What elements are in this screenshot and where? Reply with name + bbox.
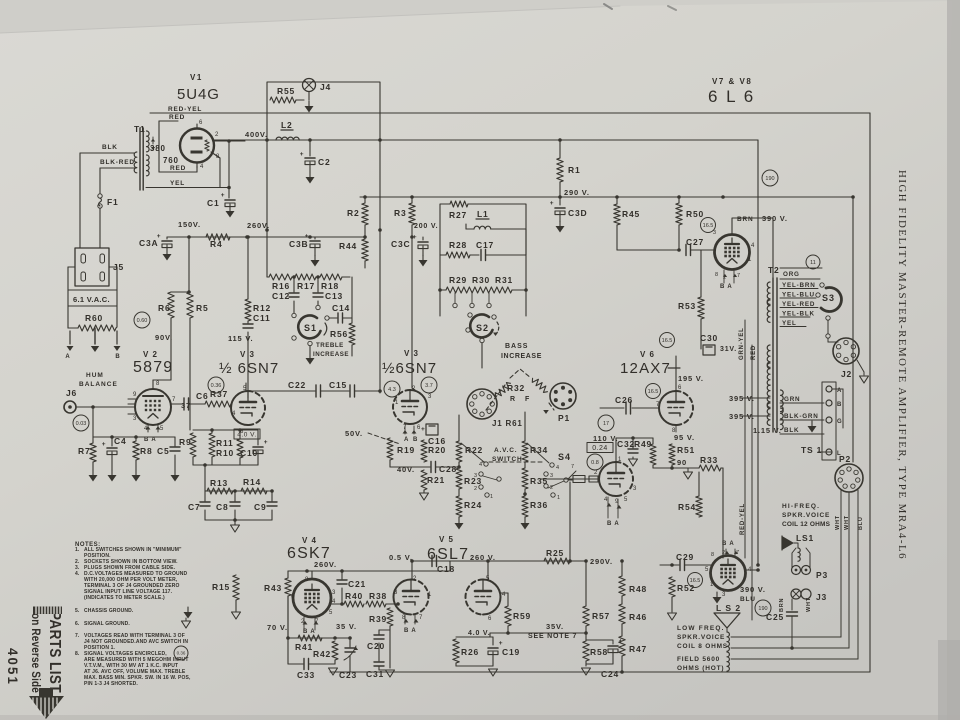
pin 8 — [211, 152, 220, 158]
svg-text:T2: T2 — [768, 265, 780, 275]
resistor R20 — [421, 440, 427, 462]
svg-text:3: 3 — [713, 230, 717, 236]
svg-text:5: 5 — [624, 497, 628, 503]
svg-text:YEL: YEL — [170, 180, 185, 187]
tap YEL-BLU — [780, 288, 818, 290]
svg-text:1: 1 — [428, 592, 432, 598]
terminal B — [116, 331, 118, 344]
resistors R16 R17 R18 treble network — [267, 276, 269, 278]
wires P2 down WHT WHT BLU — [840, 490, 842, 637]
svg-text:YEL-BLK: YEL-BLK — [782, 311, 815, 318]
svg-text:RED: RED — [751, 345, 757, 360]
svg-text:C5: C5 — [157, 446, 169, 456]
svg-text:+: + — [221, 192, 226, 199]
svg-text:0.5 V.: 0.5 V. — [389, 553, 413, 562]
svg-text:395 V.: 395 V. — [729, 412, 755, 421]
svg-text:+: + — [264, 439, 269, 446]
svg-text:BLK: BLK — [102, 144, 118, 151]
resistor R57 — [585, 561, 587, 606]
svg-text:BLK: BLK — [784, 427, 799, 434]
wire V5b plate to R59 — [500, 592, 508, 594]
wire V4 plate — [331, 597, 342, 599]
svg-text:B A: B A — [607, 521, 620, 527]
tap YEL — [780, 316, 810, 318]
capacitor C16 — [426, 424, 438, 435]
svg-text:R11: R11 — [216, 438, 234, 448]
svg-text:R38: R38 — [369, 591, 387, 601]
svg-text:B A: B A — [404, 628, 417, 634]
svg-text:2: 2 — [215, 132, 219, 138]
svg-text:OHMS (HOT): OHMS (HOT) — [677, 665, 724, 672]
svg-text:7: 7 — [656, 402, 660, 408]
svg-text:R58: R58 — [590, 647, 608, 657]
svg-text:R19: R19 — [397, 445, 415, 455]
svg-text:R26: R26 — [461, 647, 479, 657]
svg-text:11: 11 — [810, 260, 816, 266]
svg-text:5.: 5. — [75, 608, 80, 614]
svg-text:6: 6 — [488, 616, 492, 622]
svg-text:R47: R47 — [629, 644, 647, 654]
svg-text:260V.: 260V. — [247, 221, 270, 230]
svg-text:J6: J6 — [66, 388, 77, 398]
svg-text:B A: B A — [303, 629, 316, 635]
tap YEL-BRN — [780, 278, 820, 280]
svg-text:R12: R12 — [253, 303, 271, 313]
svg-text:V 6: V 6 — [640, 350, 655, 359]
svg-text:8.: 8. — [75, 651, 80, 657]
jack J3 — [791, 589, 801, 599]
svg-text:7.: 7. — [75, 633, 80, 639]
svg-text:BALANCE: BALANCE — [79, 381, 118, 388]
wire V7 plate up — [731, 225, 733, 234]
svg-text:HUM: HUM — [86, 372, 104, 379]
socket J1 R61 — [467, 389, 497, 419]
svg-text:R3: R3 — [394, 208, 406, 218]
svg-text:4051: 4051 — [5, 648, 20, 686]
svg-text:R15: R15 — [212, 582, 230, 592]
wire V6b plate — [615, 438, 617, 462]
svg-text:R25: R25 — [546, 548, 564, 558]
resistor R21 — [421, 470, 427, 490]
svg-text:4.3: 4.3 — [388, 387, 396, 393]
svg-text:C29: C29 — [676, 552, 694, 562]
svg-text:3: 3 — [550, 473, 554, 479]
resistor R50 — [678, 197, 680, 203]
wire bottom bus — [330, 671, 870, 673]
resistor R10 — [209, 433, 215, 457]
svg-text:R42: R42 — [313, 649, 331, 659]
wire plate row — [245, 391, 247, 393]
svg-text:1: 1 — [557, 495, 561, 501]
switch contacts above S2 — [454, 293, 456, 303]
svg-text:+: + — [300, 151, 305, 158]
svg-text:SEE NOTE 7: SEE NOTE 7 — [528, 633, 577, 640]
svg-text:R20: R20 — [428, 445, 446, 455]
svg-text:R49: R49 — [634, 439, 652, 449]
wire cathode net bottom — [193, 464, 258, 466]
svg-text:31V.: 31V. — [720, 346, 737, 353]
wire V4 pin6 — [288, 597, 293, 599]
svg-text:A: A — [65, 354, 70, 360]
LS2 voice coil — [726, 628, 728, 632]
svg-text:1.: 1. — [75, 547, 80, 553]
svg-text:0.03: 0.03 — [76, 421, 87, 427]
wire pot top to 290V — [519, 290, 521, 368]
transformer T2 core — [772, 278, 774, 432]
svg-text:3: 3 — [133, 416, 137, 422]
resistor R8 — [133, 441, 139, 460]
svg-text:YEL-RED: YEL-RED — [782, 301, 815, 308]
resistor R24 — [456, 496, 462, 517]
capacitor C25 — [791, 599, 793, 610]
svg-text:C6: C6 — [196, 391, 208, 401]
svg-text:16.5: 16.5 — [662, 338, 673, 344]
svg-text:WHT: WHT — [844, 515, 850, 530]
svg-text:7: 7 — [736, 550, 740, 556]
wire V4 cathode pins — [303, 617, 305, 630]
pentode V8 6L6 — [711, 556, 746, 591]
svg-text:C3B: C3B — [289, 239, 308, 249]
wire V7 grid vertical — [722, 197, 724, 237]
wire 290V bus — [360, 196, 853, 198]
svg-text:C33: C33 — [297, 670, 315, 680]
svg-text:1: 1 — [618, 457, 622, 463]
svg-text:HIGH FIDELITY MASTER-REMOTE AM: HIGH FIDELITY MASTER-REMOTE AMPLIFIER, T… — [896, 170, 908, 560]
svg-text:R45: R45 — [622, 209, 640, 219]
svg-text:R8: R8 — [140, 446, 152, 456]
ground V8 — [718, 591, 720, 594]
chassis ground example — [187, 607, 189, 612]
gang dashed line — [482, 461, 545, 463]
wire YEL — [146, 187, 229, 189]
svg-text:6 L 6: 6 L 6 — [708, 87, 755, 106]
svg-text:2: 2 — [722, 550, 726, 556]
pin 9 — [128, 398, 136, 400]
wire 90 node — [653, 467, 699, 469]
signal value 17 — [598, 415, 614, 431]
svg-text:S3: S3 — [822, 293, 835, 303]
svg-text:8: 8 — [305, 577, 309, 583]
svg-text:6: 6 — [678, 385, 682, 391]
resistor R19 — [389, 437, 391, 440]
svg-text:8: 8 — [156, 381, 160, 387]
svg-text:R48: R48 — [629, 584, 647, 594]
T2 primary winding — [767, 282, 770, 304]
svg-text:2: 2 — [412, 386, 416, 392]
wire V3b cathode pins — [403, 424, 405, 437]
svg-text:4: 4 — [200, 164, 204, 170]
svg-text:90V.: 90V. — [155, 333, 173, 342]
capacitor C26 — [600, 407, 624, 409]
svg-text:RED: RED — [170, 165, 186, 172]
resistor R52 — [671, 565, 673, 577]
capacitor C22 — [245, 390, 247, 391]
svg-text:40V.: 40V. — [397, 465, 415, 474]
svg-text:B A: B A — [144, 437, 157, 443]
svg-text:C13: C13 — [325, 291, 343, 301]
svg-text:5: 5 — [329, 610, 333, 616]
signal value 190 — [755, 600, 771, 616]
capacitor C23 variable — [349, 638, 351, 647]
svg-text:4: 4 — [751, 243, 755, 249]
svg-text:6SK7: 6SK7 — [287, 545, 331, 562]
svg-text:195 V.: 195 V. — [678, 374, 704, 383]
svg-text:3.7: 3.7 — [425, 383, 433, 389]
svg-text:SPKR.VOICE: SPKR.VOICE — [782, 512, 830, 519]
svg-text:R5: R5 — [196, 303, 208, 313]
svg-text:C20: C20 — [367, 641, 385, 651]
svg-text:R39: R39 — [369, 614, 387, 624]
svg-text:C32: C32 — [617, 439, 635, 449]
resistor R12 — [247, 237, 249, 299]
svg-text:A.V.C.: A.V.C. — [494, 447, 517, 454]
speaker LS1 horn — [782, 536, 794, 550]
pin 1 — [128, 403, 135, 405]
svg-text:C3C: C3C — [391, 239, 410, 249]
svg-text:RED: RED — [169, 114, 185, 121]
svg-text:C18: C18 — [437, 564, 455, 574]
resistor R59 — [505, 606, 511, 626]
svg-text:C22: C22 — [288, 380, 306, 390]
resistor R41 — [288, 637, 350, 639]
signal value 3.7 — [421, 377, 437, 393]
wire down to P2 — [852, 197, 854, 462]
svg-text:+: + — [305, 233, 310, 240]
pin 7 — [171, 403, 181, 405]
svg-text:R41: R41 — [295, 642, 313, 652]
svg-text:4.0 V.: 4.0 V. — [237, 431, 256, 438]
svg-text:4.0 V.: 4.0 V. — [468, 630, 490, 637]
svg-text:12AX7: 12AX7 — [620, 360, 671, 377]
svg-text:C28: C28 — [439, 464, 457, 474]
svg-text:R31: R31 — [495, 275, 513, 285]
wire V3a plate — [245, 383, 247, 391]
wire V8 plate — [745, 567, 758, 569]
svg-text:3: 3 — [394, 590, 398, 596]
svg-text:3: 3 — [474, 473, 478, 479]
wire 150V bus — [167, 236, 365, 238]
svg-text:on Reverse Side: on Reverse Side — [29, 613, 41, 693]
svg-text:7: 7 — [172, 397, 176, 403]
svg-text:BASS: BASS — [505, 343, 528, 350]
connector J5 — [75, 248, 109, 286]
wire V3a cathode — [239, 425, 241, 437]
resistor R53 — [700, 250, 702, 297]
resistor R7 — [90, 443, 96, 462]
switch S3 — [821, 287, 841, 311]
wire filter to S2 — [439, 255, 441, 316]
resistor R51 — [671, 432, 673, 443]
svg-text:R33: R33 — [700, 455, 718, 465]
svg-text:B: B — [115, 354, 120, 360]
svg-text:+: + — [421, 426, 426, 433]
svg-text:C12: C12 — [272, 291, 290, 301]
svg-text:COIL 8 OHMS: COIL 8 OHMS — [677, 643, 728, 650]
svg-text:0.36: 0.36 — [177, 651, 186, 656]
svg-text:YEL-BRN: YEL-BRN — [782, 282, 816, 289]
box R27 L1 filter — [440, 204, 450, 255]
signal ground example — [182, 621, 191, 628]
svg-text:+: + — [102, 441, 107, 448]
svg-text:R6: R6 — [158, 303, 170, 313]
svg-text:C19: C19 — [502, 647, 520, 657]
6.1 V.A.C. box — [68, 290, 117, 306]
svg-text:GRN: GRN — [784, 396, 800, 403]
resistor R34 — [524, 412, 526, 441]
svg-text:6: 6 — [199, 120, 203, 126]
T2 secondary winding — [781, 390, 784, 412]
ground R42 — [329, 668, 338, 675]
svg-text:R53: R53 — [678, 301, 696, 311]
parts list arrow — [29, 696, 64, 719]
wire TS1 stubs — [832, 388, 843, 390]
svg-text:TS 1: TS 1 — [801, 445, 822, 455]
signal value 0.60 — [134, 312, 150, 328]
svg-text:WHT: WHT — [835, 515, 841, 530]
triode V6a 12AX7 — [659, 391, 676, 425]
svg-text:GRN-YEL: GRN-YEL — [739, 327, 745, 360]
svg-text:0.60: 0.60 — [137, 318, 148, 324]
svg-text:LS1: LS1 — [796, 533, 814, 543]
ground filter — [234, 520, 236, 525]
svg-text:R52: R52 — [677, 583, 695, 593]
pilot lamp J4 — [303, 79, 316, 92]
svg-text:200 V.: 200 V. — [414, 223, 438, 230]
wire GRN-YEL vertical — [744, 320, 746, 558]
wire RED upper — [159, 120, 178, 122]
svg-text:YEL: YEL — [782, 320, 797, 327]
svg-text:395 V.: 395 V. — [729, 394, 755, 403]
svg-text:2: 2 — [413, 576, 417, 582]
signal value 11 — [806, 255, 820, 269]
svg-text:R7: R7 — [78, 446, 90, 456]
wire RED-YEL top bus — [150, 112, 870, 114]
wire V5a grid — [397, 601, 399, 604]
svg-text:1: 1 — [490, 494, 494, 500]
svg-text:C27: C27 — [686, 237, 704, 247]
svg-text:8: 8 — [711, 552, 715, 558]
capacitor C18 — [431, 556, 433, 567]
pin 3 — [128, 413, 137, 415]
svg-text:R1: R1 — [568, 165, 580, 175]
wire field coil to bus — [731, 665, 870, 667]
svg-text:4: 4 — [144, 426, 148, 432]
svg-text:ORG: ORG — [783, 271, 800, 278]
wire V4 screen bus 260V — [288, 570, 450, 572]
svg-text:SIGNAL GROUND.: SIGNAL GROUND. — [84, 621, 130, 627]
svg-text:35 V.: 35 V. — [336, 622, 357, 631]
svg-text:B: B — [413, 437, 418, 443]
capacitor C21 — [341, 571, 343, 579]
svg-text:C26: C26 — [615, 395, 633, 405]
wire to V3b grid — [372, 390, 380, 392]
svg-text:6.: 6. — [75, 621, 80, 627]
signal value 4.3 — [384, 381, 400, 397]
svg-text:WHT: WHT — [806, 597, 812, 612]
svg-text:0.24: 0.24 — [592, 445, 608, 452]
resistor R2 — [364, 197, 366, 203]
svg-text:S1: S1 — [304, 323, 317, 333]
svg-text:C1: C1 — [207, 198, 219, 208]
ground under S1 — [309, 346, 311, 358]
svg-text:RED-YEL: RED-YEL — [168, 106, 202, 113]
svg-text:+: + — [550, 200, 555, 207]
svg-text:PARTS LIST: PARTS LIST — [46, 611, 63, 693]
triode V5b 6SL7 — [483, 580, 501, 615]
svg-text:390 V.: 390 V. — [740, 585, 766, 594]
svg-text:6SL7: 6SL7 — [427, 546, 469, 563]
svg-text:J2: J2 — [841, 369, 852, 379]
T2 secondary taps — [780, 402, 824, 404]
svg-text:R54: R54 — [678, 502, 696, 512]
svg-text:V 2: V 2 — [143, 350, 158, 359]
svg-text:5U4G: 5U4G — [177, 86, 220, 103]
svg-text:5879: 5879 — [133, 359, 173, 376]
svg-text:(INDICATES TO METER SCALE.): (INDICATES TO METER SCALE.) — [84, 595, 165, 601]
LS1 terminals P3 — [792, 566, 801, 575]
svg-text:BLU: BLU — [740, 596, 756, 603]
signal value 0.8 — [587, 454, 603, 470]
svg-text:C15: C15 — [329, 380, 347, 390]
svg-text:110 V.: 110 V. — [593, 434, 618, 443]
svg-text:5: 5 — [705, 567, 709, 573]
rotary switch S1 — [298, 315, 320, 338]
svg-text:R13: R13 — [210, 478, 228, 488]
resistor R54 — [698, 468, 700, 496]
R55 J4 box — [267, 82, 380, 115]
signal value 190 top — [762, 170, 778, 186]
resistor R37 — [205, 401, 231, 407]
tap ORG — [780, 267, 822, 269]
resistor R35 — [522, 468, 528, 489]
svg-text:V 3: V 3 — [404, 349, 419, 358]
svg-text:F1: F1 — [107, 197, 119, 207]
svg-text:C30: C30 — [700, 333, 718, 343]
svg-text:G: G — [837, 419, 842, 425]
svg-text:P3: P3 — [816, 570, 828, 580]
tap YEL-RED — [780, 297, 816, 299]
svg-text:C2: C2 — [318, 157, 330, 167]
svg-text:90: 90 — [677, 458, 687, 467]
svg-text:290 V.: 290 V. — [564, 188, 590, 197]
svg-text:0.8: 0.8 — [591, 460, 599, 466]
svg-text:R40: R40 — [345, 591, 363, 601]
svg-text:9: 9 — [615, 499, 619, 505]
pins 4 5 — [147, 424, 149, 432]
wire 395V taps — [740, 397, 770, 399]
plug P1 — [550, 383, 576, 409]
svg-text:R23: R23 — [464, 476, 482, 486]
resistor R45 — [616, 197, 618, 204]
svg-text:3: 3 — [722, 592, 726, 598]
meter cal 0.24 — [587, 443, 613, 453]
svg-text:J4: J4 — [320, 82, 331, 92]
svg-text:C11: C11 — [253, 313, 271, 323]
capacitor C29 — [660, 564, 679, 566]
svg-text:5: 5 — [160, 426, 164, 432]
svg-text:3: 3 — [332, 590, 336, 596]
capacitor C27 — [617, 249, 679, 251]
svg-text:SPKR.VOICE: SPKR.VOICE — [677, 634, 725, 641]
svg-text:16.5: 16.5 — [703, 223, 714, 229]
svg-text:C24: C24 — [601, 669, 619, 679]
svg-text:J1 R61: J1 R61 — [492, 419, 523, 428]
svg-text:V1: V1 — [190, 73, 203, 82]
capacitors C20 C31 — [379, 629, 390, 631]
svg-text:C14: C14 — [332, 303, 350, 313]
hatched bar — [33, 607, 62, 615]
svg-text:8: 8 — [715, 272, 719, 278]
